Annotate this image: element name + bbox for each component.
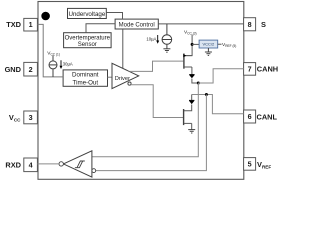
hysteresis symbol: [75, 161, 85, 168]
wire VCC node to VCC/2 box: [192, 43, 199, 45]
receiver output bubble: [59, 162, 63, 166]
svg-text:30µA: 30µA: [63, 61, 73, 66]
wire overtemperature to mode control: [86, 24, 115, 33]
Mode Control block: [115, 19, 158, 29]
transistor Q2 CANL driver FET: [184, 109, 192, 125]
svg-text:5: 5: [248, 160, 252, 169]
wire mode control to driver: [122, 29, 124, 69]
svg-text:RXD: RXD: [5, 161, 21, 170]
chip outline U1: [38, 2, 244, 180]
wire A driver to CANH gate: [130, 61, 184, 71]
svg-text:Driver: Driver: [115, 76, 130, 82]
svg-text:10µA: 10µA: [146, 37, 156, 42]
transistor Q1 CANH driver FET: [183, 54, 192, 69]
svg-text:Undervoltage: Undervoltage: [68, 11, 105, 18]
node CANL junction dot: [205, 93, 208, 96]
VCC (1) label: [47, 50, 60, 56]
svg-text:CANH: CANH: [257, 65, 278, 74]
ground below Q2: [188, 130, 195, 133]
wire undervoltage to mode control: [106, 13, 122, 20]
svg-text:TXD: TXD: [6, 20, 21, 29]
ground below I2: [163, 49, 170, 52]
driver triangle: [112, 63, 139, 88]
pin 6 box CANL: [244, 110, 256, 123]
Dominant Time-Out block: [63, 70, 107, 86]
wire VCC3 down to Q1 drain: [184, 35, 192, 56]
wire CANL branch (diode leg to pin 6): [192, 95, 244, 114]
pin 4 box RXD: [24, 158, 38, 172]
svg-text:8: 8: [248, 20, 252, 29]
pin 3 box VCC: [24, 111, 38, 124]
svg-text:GND: GND: [5, 65, 22, 74]
svg-text:2: 2: [29, 65, 33, 74]
wire Q1 source to diode D1: [191, 67, 193, 74]
svg-text:VCC/2: VCC/2: [203, 42, 216, 47]
svg-text:Dominant: Dominant: [72, 72, 99, 79]
svg-text:Overtemperature: Overtemperature: [65, 35, 111, 41]
pin 1 box TXD: [24, 18, 38, 31]
diode D2 (CANL): [189, 100, 194, 104]
pin 1 indicator dot: [41, 12, 50, 21]
receiver inverting input bubble: [92, 169, 96, 173]
svg-text:4: 4: [29, 161, 33, 170]
wire RXD pin 4 to receiver output: [37, 163, 59, 165]
svg-text:6: 6: [248, 112, 252, 121]
svg-text:Sensor: Sensor: [78, 42, 97, 48]
driver inverted output bubble: [128, 82, 131, 85]
receiver comparator triangle: [63, 151, 92, 177]
wire CANL node to receiver inverting input: [96, 95, 207, 171]
wire mode control to S pin 8: [158, 23, 243, 25]
Undervoltage block: [68, 8, 107, 18]
pin 2 box GND: [24, 62, 38, 76]
wire time-out to driver: [108, 76, 113, 78]
wire B driver bubble to CANL gate: [131, 85, 183, 118]
pin 8 box S: [244, 18, 256, 31]
wire CANH node to receiver input: [92, 83, 198, 157]
svg-text:7: 7: [248, 65, 252, 74]
VCC (3) label: [184, 29, 197, 35]
wire D1 to CANH node: [192, 79, 198, 83]
node CANH junction dot: [197, 82, 200, 85]
pin 7 box CANH: [244, 63, 256, 76]
arrow 10uA: [146, 35, 159, 44]
pin 5 box VREF: [244, 158, 256, 171]
arrow 30uA: [60, 60, 73, 69]
svg-text:1: 1: [29, 20, 33, 29]
wire TXD pin1 to time-out: [37, 24, 63, 77]
svg-text:Mode Control: Mode Control: [119, 22, 155, 28]
wire CANH node to pin 7: [198, 69, 243, 83]
svg-text:Time-Out: Time-Out: [73, 79, 99, 86]
ground below VCC/2: [205, 48, 212, 55]
diode D1 (CANH): [189, 75, 194, 79]
node VCC junction dot: [191, 43, 194, 46]
wire Q2 source to ground: [191, 123, 193, 129]
VCC/2 reference block: [199, 40, 218, 48]
current source I2 10uA (S pull-down): [162, 24, 172, 49]
wire D2 to Q2 drain: [184, 105, 192, 111]
current source I1 30uA (TXD pull-up): [49, 56, 57, 77]
svg-text:CANL: CANL: [257, 112, 278, 121]
VREF (5) label: [218, 42, 237, 48]
svg-text:3: 3: [29, 113, 33, 122]
svg-text:S: S: [261, 20, 266, 29]
Overtemperature Sensor block: [64, 33, 112, 49]
